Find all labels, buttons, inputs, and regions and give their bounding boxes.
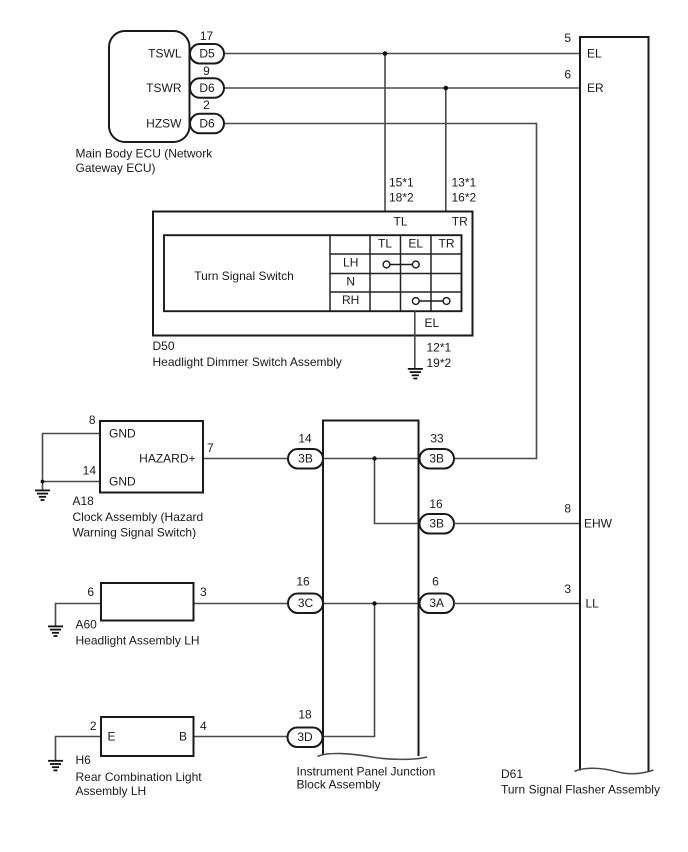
svg-text:3B: 3B [429,517,444,531]
switch contact LH TL-EL [383,261,419,268]
svg-text:LL: LL [586,597,600,611]
wire rear combination pin4 to 3D [194,736,288,738]
svg-text:16: 16 [296,575,310,589]
svg-text:19*2: 19*2 [427,356,452,370]
svg-text:A18: A18 [73,494,95,508]
svg-text:3A: 3A [429,596,444,610]
connector 3D [288,728,323,748]
svg-text:TSWR: TSWR [146,81,182,95]
svg-text:13*1: 13*1 [452,176,477,190]
svg-text:RH: RH [342,293,359,307]
svg-text:7: 7 [207,441,214,455]
svg-text:3D: 3D [297,730,313,744]
wire 3B16 to flasher EHW [454,523,580,525]
svg-text:EL: EL [587,47,602,61]
junction dot TR [444,86,449,91]
svg-text:16*2: 16*2 [452,191,477,205]
connector D6 HZSW [190,114,224,134]
junction block internal drop 3C to 3D [323,604,375,737]
rear combination wire to ground [56,737,102,761]
svg-text:6: 6 [564,68,571,82]
connector D5 [190,44,224,64]
svg-text:17: 17 [200,29,214,43]
junction block internal wire 3B row [323,458,420,460]
headlight assembly wire to ground [56,604,102,627]
Main Body ECU box [109,31,190,142]
svg-text:D5: D5 [199,47,215,61]
svg-text:D6: D6 [199,81,215,95]
svg-text:33: 33 [430,432,444,446]
clock assembly A18 box [100,421,203,493]
table row line 2 [330,273,462,275]
connector 3A [420,594,455,614]
svg-text:LH: LH [343,256,358,270]
svg-text:15*1: 15*1 [389,176,414,190]
svg-text:HZSW: HZSW [146,117,182,131]
svg-text:3B: 3B [298,452,313,466]
ground headlight [48,626,63,636]
svg-text:5: 5 [564,31,571,45]
D50 headlight dimmer switch outer box [153,212,473,336]
svg-text:8: 8 [89,413,96,427]
wire HZSW D6 to junction block 3B pin 33 [224,124,537,459]
svg-text:Headlight Assembly LH: Headlight Assembly LH [76,634,200,648]
svg-text:3: 3 [564,582,571,596]
table column line 1 [329,235,331,311]
svg-text:8: 8 [564,502,571,516]
svg-text:18: 18 [298,708,312,722]
svg-text:TL: TL [394,215,408,229]
wire HAZARD+ to 3B [203,458,288,460]
svg-text:H6: H6 [76,753,92,767]
svg-text:16: 16 [429,497,443,511]
headlight assembly A60 box [101,583,194,621]
svg-text:12*1: 12*1 [427,341,452,355]
rear combination light H6 box [101,717,194,756]
connector D6 TSWR [190,78,224,98]
svg-text:Clock Assembly (Hazard: Clock Assembly (Hazard [73,510,204,524]
table column line 3 [400,235,402,311]
svg-text:ER: ER [587,81,604,95]
svg-text:EL: EL [408,237,423,251]
svg-text:14: 14 [298,432,312,446]
connector 3C [288,594,323,614]
svg-text:GND: GND [109,427,136,441]
junction dot 3B row [372,456,376,460]
clock assembly wires to ground [43,434,101,491]
svg-text:TSWL: TSWL [148,47,182,61]
svg-text:D50: D50 [153,339,175,353]
junction block internal drop 3B to 3B16 [375,459,420,524]
table row line 3 [330,291,462,293]
ground EL [408,369,423,379]
svg-text:18*2: 18*2 [389,191,414,205]
junction block internal wire 3C row [323,603,420,605]
wire TSWR D6 to flasher ER pin 6 [224,87,580,89]
svg-text:Assembly LH: Assembly LH [76,784,147,798]
svg-text:Headlight Dimmer Switch Assemb: Headlight Dimmer Switch Assembly [153,355,342,369]
svg-text:EHW: EHW [584,517,613,531]
wire 3A to flasher LL [454,603,580,605]
flasher wavy bottom [575,768,654,773]
switch contact RH EL-TR [412,298,450,305]
junction block wavy bottom [318,753,428,759]
svg-text:Gateway ECU): Gateway ECU) [76,161,156,175]
junction dot 3C row [372,601,376,605]
svg-text:6: 6 [87,585,94,599]
svg-text:14: 14 [83,464,97,478]
svg-text:2: 2 [90,719,97,733]
svg-text:A60: A60 [76,618,98,632]
ground rear combination [48,761,63,771]
wire headlight pin3 to 3C [194,603,289,605]
svg-text:Turn Signal Flasher Assembly: Turn Signal Flasher Assembly [501,783,660,797]
svg-text:TL: TL [378,237,392,251]
connector 3B right 16 [420,514,455,534]
wire EL to ground [414,311,416,368]
turn signal flasher assembly box [580,37,649,771]
svg-text:2: 2 [203,98,210,112]
svg-text:Block Assembly: Block Assembly [297,778,381,792]
svg-text:9: 9 [203,64,210,78]
svg-text:3C: 3C [298,596,314,610]
svg-text:E: E [108,730,116,744]
svg-text:N: N [346,275,355,289]
ground clock [35,490,50,500]
svg-text:Rear Combination Light: Rear Combination Light [76,770,203,784]
svg-text:D6: D6 [199,117,215,131]
junction dot TL [383,51,388,56]
svg-text:Main Body ECU (Network: Main Body ECU (Network [76,147,214,161]
wire TL drop to turn signal switch [384,54,386,236]
svg-text:EL: EL [425,316,440,330]
connector 3B right 33 [420,449,455,469]
connector 3B left [288,449,323,469]
table column line 2 [369,235,371,311]
wire TR drop to turn signal switch [445,88,447,235]
svg-text:4: 4 [200,719,207,733]
svg-text:6: 6 [432,575,439,589]
svg-text:HAZARD+: HAZARD+ [139,452,195,466]
junction dot clock ground [41,480,45,484]
svg-text:GND: GND [109,475,136,489]
table row line 1 [330,253,462,255]
wire TSWL D5 to flasher EL pin 5 [224,53,580,55]
svg-text:B: B [179,730,187,744]
table column line 4 [430,235,432,311]
turn signal switch inner box [164,235,462,311]
svg-text:Turn Signal Switch: Turn Signal Switch [194,269,294,283]
svg-text:Instrument Panel Junction: Instrument Panel Junction [297,765,436,779]
svg-text:TR: TR [439,237,455,251]
svg-text:TR: TR [452,215,468,229]
svg-text:D61: D61 [501,767,523,781]
svg-text:Warning Signal Switch): Warning Signal Switch) [73,526,197,540]
svg-text:3: 3 [200,585,207,599]
svg-text:3B: 3B [429,452,444,466]
instrument panel junction block box [323,421,419,757]
